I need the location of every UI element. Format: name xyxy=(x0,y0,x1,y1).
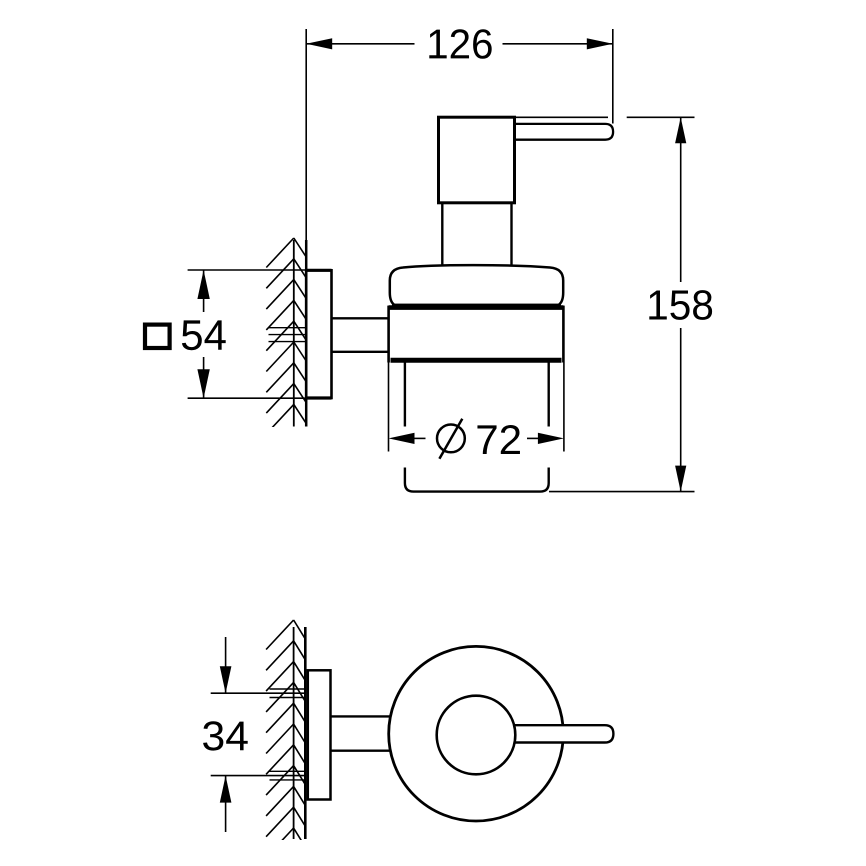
wall hatch (lower wall section) xyxy=(266,620,305,858)
diameter symbol xyxy=(437,419,465,459)
label 126 xyxy=(429,29,491,59)
holder right edge xyxy=(562,306,565,363)
wall face line (lower) xyxy=(304,627,307,839)
line from head corner to tick xyxy=(516,116,608,118)
dim line segments xyxy=(680,117,682,282)
arrowhead 126 right xyxy=(587,38,613,49)
ext bottom xyxy=(211,775,305,777)
label 158 xyxy=(649,290,712,320)
top tick at pump head top level xyxy=(627,116,695,118)
label 72 xyxy=(477,425,520,454)
ext line left (wall face extension) xyxy=(305,29,307,240)
label 54 xyxy=(182,320,226,350)
wall spine line (lower) xyxy=(293,627,295,839)
arrowhead 54 top xyxy=(197,270,209,299)
arm (upper, connects plate to holder ring) xyxy=(332,318,390,352)
arrowhead 54 bottom xyxy=(197,369,209,398)
dim line above xyxy=(225,637,227,693)
dim line below xyxy=(225,776,227,832)
mounting plate (upper, side view) xyxy=(306,270,331,398)
arm (lower) xyxy=(331,716,393,750)
ext left below holder xyxy=(388,363,390,452)
spout / pump lever (side view) xyxy=(505,124,613,140)
ext top xyxy=(188,269,307,271)
ext bottom xyxy=(188,397,307,399)
arrowhead 34 bottom xyxy=(220,776,232,803)
arrowhead 158 bottom xyxy=(675,466,686,492)
arrowhead 158 top xyxy=(675,117,686,143)
dim line segments xyxy=(306,43,414,45)
holder left edge xyxy=(387,306,390,363)
bottle cap (rounded pillow) xyxy=(390,265,563,305)
holder bottom thick edge xyxy=(391,358,562,363)
wall spine line (upper) xyxy=(293,240,295,427)
ext top xyxy=(211,692,305,694)
pump head (side view) xyxy=(439,117,515,203)
dimension 34 (screw spacing) xyxy=(211,637,305,832)
dimension square 54 (left, plate size) xyxy=(188,270,307,398)
arrowhead d72 left xyxy=(389,433,415,444)
mounting plate (lower, edge view) xyxy=(308,670,331,799)
dimension 158 (total height) xyxy=(516,117,695,491)
dim line stubs xyxy=(414,437,426,439)
cap bottom line xyxy=(392,304,561,306)
bottle glass walls below holder xyxy=(405,363,549,427)
pump stem xyxy=(442,203,511,267)
arrowhead 126 left xyxy=(306,38,332,49)
bottle bottom xyxy=(405,468,549,492)
label 34 xyxy=(203,721,248,750)
wall face line (upper) xyxy=(305,240,308,427)
ext right below holder xyxy=(563,363,565,452)
screw lines (lower top screw) xyxy=(270,689,306,780)
dimension 126 (top width) xyxy=(306,29,613,240)
square symbol xyxy=(145,325,170,348)
wall hatch (upper wall section) xyxy=(266,238,306,434)
holder top thick edge xyxy=(389,305,564,310)
holder outer ring (top view) xyxy=(389,646,564,821)
arrowhead 34 top xyxy=(220,666,232,693)
bottom tick at bottle bottom level xyxy=(549,491,695,493)
holder inner circle (top view) xyxy=(437,696,516,775)
dim line segments xyxy=(203,270,205,312)
screw/anchor lines behind plate (upper) xyxy=(269,328,307,342)
arrowhead d72 right xyxy=(538,433,564,444)
spout bar (top view) xyxy=(500,725,613,742)
dimension d72 (bottle/holder diameter) xyxy=(389,363,564,452)
ext line right (spout tip extension) xyxy=(612,29,614,124)
